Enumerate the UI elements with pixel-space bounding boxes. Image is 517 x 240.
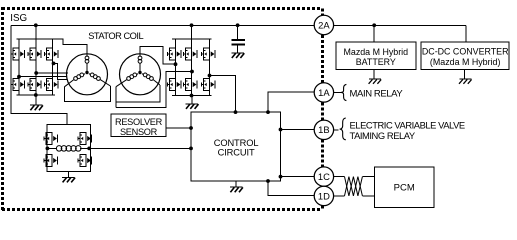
wire 2A to battery bus: [334, 24, 466, 26]
wire bus to left bridge: [35, 25, 37, 39]
node control top from right bridge: [234, 110, 238, 114]
node left phase 3: [52, 62, 56, 66]
ground resolver bridge: [62, 176, 75, 178]
wire bus to capacitor: [237, 25, 239, 40]
node right phase 1: [174, 62, 178, 66]
node resolver bridge left: [46, 147, 50, 151]
wire U-channel under left stator: [65, 86, 111, 102]
node control left resolver: [189, 126, 193, 130]
node left bridge bottom: [34, 93, 38, 97]
svg-text:2A: 2A: [318, 19, 330, 30]
wire 1A to main relay: [334, 91, 341, 93]
right bridge phase leg 2: [191, 39, 193, 96]
wire twisted pair to PCM upper: [362, 176, 374, 178]
wire right phase 2 channel under stator: [116, 72, 192, 108]
svg-text:BATTERY: BATTERY: [356, 57, 396, 67]
ISG dashed border bottom: [2, 208, 322, 211]
ISG dashed border top: [2, 7, 320, 10]
wire resolver bridge to control circuit: [91, 147, 191, 149]
right bridge bottom rail: [172, 95, 212, 97]
transistor right bridge low-side 1: [168, 79, 181, 91]
svg-text:1B: 1B: [318, 124, 329, 135]
node control right 1C: [279, 175, 283, 179]
left bridge phase leg 2: [35, 39, 37, 95]
wire resolver sensor to control circuit: [166, 127, 191, 129]
svg-text:(Mazda M Hybrid): (Mazda M Hybrid): [430, 57, 501, 67]
left bridge top rail: [17, 38, 56, 40]
wire right bridge to ground: [191, 96, 193, 104]
node top bus to capacitor: [236, 23, 240, 27]
right bridge top rail: [172, 38, 212, 40]
right bridge phase leg 1: [175, 39, 177, 96]
wire control to connector 1B: [281, 129, 315, 131]
transistor left bridge low-side 2: [28, 79, 41, 91]
battery box: [336, 42, 416, 70]
brace main relay: [341, 84, 347, 100]
capacitor: [231, 39, 245, 41]
svg-text:STATOR COIL: STATOR COIL: [88, 31, 143, 41]
wire left phase 2 to stator: [36, 72, 68, 74]
brace evvt relay: [340, 118, 346, 140]
transistor resolver bridge top-right: [78, 133, 91, 145]
inductor resolver excitation coil: [56, 146, 62, 152]
node control right 1B: [279, 128, 283, 132]
node control bottom 1D: [266, 179, 270, 183]
svg-text:1D: 1D: [318, 190, 330, 201]
twisted pair wires: [345, 177, 363, 196]
node left phase 2: [34, 71, 38, 75]
connector 1D: [314, 186, 333, 205]
ISG dashed border left: [1, 7, 4, 211]
wire bus to right bridge: [191, 25, 193, 39]
connector 1C: [314, 167, 333, 186]
wire right phase 3 to control circuit: [210, 76, 236, 113]
transistor right bridge low-side 3: [202, 79, 215, 91]
ground capacitor: [231, 52, 244, 54]
wire twisted pair to PCM lower: [362, 195, 374, 197]
ISG dashed border right (through connectors): [321, 9, 324, 16]
ground battery: [369, 78, 381, 80]
wire top supply bus: [11, 24, 314, 26]
transistor left bridge low-side 3: [45, 79, 58, 91]
svg-text:1C: 1C: [318, 171, 330, 182]
node right phase 3: [208, 74, 212, 78]
connector 1A: [314, 83, 333, 102]
wire branch to battery: [373, 25, 375, 42]
node right phase 2: [190, 70, 194, 74]
wire left bridge to ground: [35, 95, 37, 105]
wire left trunk: [11, 25, 67, 124]
wire resolver bridge ground stub: [67, 171, 69, 177]
svg-text:TAIMING RELAY: TAIMING RELAY: [350, 130, 416, 141]
svg-text:1A: 1A: [318, 87, 330, 98]
ground dc-dc converter: [459, 78, 471, 80]
wire control circuit lower ground stub: [235, 181, 237, 187]
transistor right bridge high-side 2: [184, 48, 197, 60]
wire resolver bridge middle right: [80, 147, 91, 149]
wire control to connector 1D: [268, 181, 314, 195]
wire right stator top phase: [140, 47, 176, 65]
node top bus to right bridge: [190, 23, 194, 27]
svg-text:MAIN RELAY: MAIN RELAY: [350, 89, 404, 100]
PCM box: [375, 167, 435, 207]
wire control to connector 1A: [268, 92, 314, 112]
transistor resolver bridge bottom-right: [78, 155, 91, 167]
transistor left bridge high-side 3: [45, 48, 58, 60]
transistor left bridge high-side 1: [11, 48, 24, 60]
svg-text:SENSOR: SENSOR: [120, 127, 158, 137]
wire resolver bridge middle left: [47, 147, 57, 149]
wire dc-dc ground stub: [464, 69, 466, 79]
transistor resolver bridge top-left: [44, 133, 57, 145]
stator winding right (wye): [116, 54, 160, 95]
control circuit box U1: [191, 112, 281, 181]
transistor right bridge low-side 2: [184, 79, 197, 91]
transistor right bridge high-side 1: [168, 48, 181, 60]
left bridge phase leg 1: [18, 39, 20, 95]
transistor left bridge low-side 1: [11, 79, 24, 91]
connector 1B: [314, 120, 333, 139]
node control left bridge: [189, 147, 193, 151]
wire U-channel under right stator: [115, 87, 117, 108]
resolver sensor box: [111, 114, 166, 137]
wire bus to dc-dc converter: [465, 25, 467, 42]
dc-dc converter box: [421, 42, 509, 70]
left bridge phase leg 3: [52, 39, 54, 95]
node battery branch: [372, 23, 376, 27]
svg-text:DC-DC CONVERTER: DC-DC CONVERTER: [422, 47, 509, 57]
ground control circuit lower: [230, 186, 243, 188]
node right bridge bottom: [190, 94, 194, 98]
svg-text:Mazda M Hybrid: Mazda M Hybrid: [343, 47, 408, 57]
transistor right bridge high-side 3: [202, 48, 215, 60]
wire left phase 3 to stator: [54, 63, 68, 79]
right bridge phase leg 3: [209, 39, 211, 96]
transistor left bridge high-side 2: [28, 48, 41, 60]
svg-text:ISG: ISG: [10, 13, 27, 24]
resolver bridge frame: [47, 124, 91, 171]
node top bus to left bridge: [34, 23, 38, 27]
ground left bridge: [30, 104, 43, 106]
wire 1B to relay: [334, 129, 339, 131]
transistor resolver bridge bottom-left: [44, 155, 57, 167]
svg-text:RESOLVER: RESOLVER: [115, 117, 163, 127]
node resolver bridge right: [87, 147, 91, 151]
wire battery ground stub: [373, 69, 375, 79]
wire left bridge top phase to stator: [55, 39, 87, 54]
svg-text:CIRCUIT: CIRCUIT: [218, 147, 255, 157]
node control top to 1A: [266, 110, 270, 114]
wire 1D to twisted pair: [334, 195, 345, 197]
left bridge bottom rail: [17, 94, 56, 96]
wire control to connector 1C: [281, 176, 315, 178]
ground right bridge: [186, 103, 199, 105]
stator winding left (wye): [65, 54, 111, 95]
connector 2A: [314, 15, 333, 34]
wire 1C to twisted pair: [334, 176, 345, 178]
svg-text:PCM: PCM: [394, 183, 415, 194]
wire left phase 1 to stator: [19, 76, 67, 78]
node left phase 1: [17, 75, 21, 79]
